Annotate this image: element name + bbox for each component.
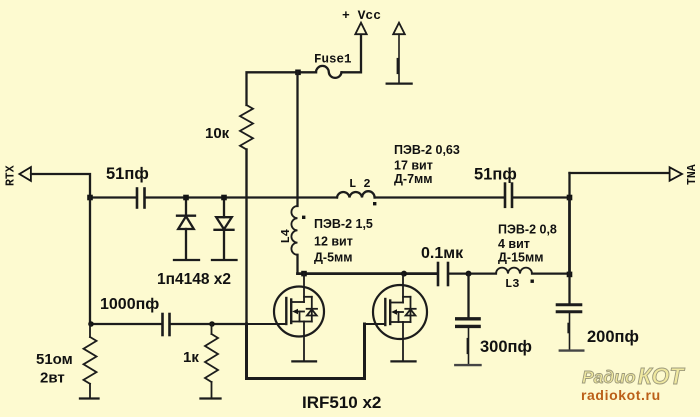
svg-text:200пф: 200пф xyxy=(587,328,639,346)
wire 1000pf left segment xyxy=(90,323,162,325)
inductor L3 xyxy=(496,268,532,274)
svg-text:0.1мк: 0.1мк xyxy=(421,245,464,262)
svg-text:Д-5мм: Д-5мм xyxy=(314,251,353,265)
diode VD1 1n4148 xyxy=(174,198,199,261)
ground 300pf xyxy=(455,364,480,366)
svg-text:ПЭВ-2 0,8: ПЭВ-2 0,8 xyxy=(498,223,557,237)
wire ANT riser xyxy=(568,173,570,198)
junction square diode VD2 xyxy=(221,195,227,201)
label PEV-2 0,63 block xyxy=(394,143,460,186)
svg-text:ПЭВ-2 1,5: ПЭВ-2 1,5 xyxy=(314,217,373,231)
wire input bus left segment xyxy=(90,196,136,198)
drain bus wire xyxy=(298,272,438,275)
wire RTX to corner xyxy=(31,174,90,198)
transistor Q1 IRF510 left xyxy=(247,274,325,361)
capacitor C1 51pf left xyxy=(137,189,145,208)
resistor R1 10k xyxy=(240,105,253,149)
svg-text:17 вит: 17 вит xyxy=(394,159,433,173)
diode VD2 1n4148 xyxy=(212,198,237,261)
wire bus L2 to cap2 xyxy=(375,196,504,198)
wire 0.1mk to L3 xyxy=(449,273,496,275)
svg-text:+ Vcc: + Vcc xyxy=(342,8,381,23)
wire ANT node down to output node xyxy=(568,198,571,274)
label PEV-2 1,5 block xyxy=(314,217,373,265)
logo Radio KOT watermark xyxy=(581,363,685,403)
svg-text:Д-15мм: Д-15мм xyxy=(498,251,543,265)
junction square ANT node xyxy=(567,195,573,201)
junction dot 300pf tap xyxy=(466,271,472,277)
svg-text:L3: L3 xyxy=(505,277,519,291)
junction square output node xyxy=(567,272,573,278)
junction dot left of 1000pf xyxy=(88,321,94,327)
node RTX arrow xyxy=(19,167,31,181)
svg-text:4 вит: 4 вит xyxy=(498,237,530,251)
wire cap2 to ANT node xyxy=(513,196,570,198)
wire 10k to gate riser xyxy=(245,150,247,325)
svg-text:51ом: 51ом xyxy=(36,351,73,368)
capacitor C2 51pf right xyxy=(505,184,512,207)
svg-text:300пф: 300пф xyxy=(480,338,532,356)
svg-text:Д-7мм: Д-7мм xyxy=(394,172,433,186)
wire bus cap to L2 xyxy=(146,196,337,198)
label PEV-2 0,8 block xyxy=(498,223,557,265)
capacitor C4 0.1mk xyxy=(438,263,448,285)
transistor Q2 IRF510 right xyxy=(365,274,428,361)
svg-text:10к: 10к xyxy=(205,125,230,142)
wire to ANT arrow xyxy=(570,172,670,174)
svg-text:ПЭВ-2 0,63: ПЭВ-2 0,63 xyxy=(394,143,460,157)
resistor R3 1k xyxy=(205,324,218,398)
wire 1000pf to gate riser xyxy=(171,323,247,325)
capacitor C3 1000pf xyxy=(163,314,170,335)
winding dot L2 xyxy=(373,202,376,205)
wire gate feedback U-shape xyxy=(247,324,365,379)
ground R3 xyxy=(201,397,221,399)
winding dot L4 xyxy=(302,216,305,219)
junction square top rail xyxy=(295,70,301,76)
svg-text:РадиоКОТ: РадиоКОТ xyxy=(582,363,685,389)
svg-text:L 2: L 2 xyxy=(349,177,371,191)
wire top rail from 10k to fuse xyxy=(247,72,317,105)
winding dot L3 xyxy=(531,280,534,283)
power +Vcc arrow xyxy=(355,23,366,35)
capacitor C6 200pf xyxy=(557,274,581,350)
wire Vcc drop to L4 xyxy=(296,72,298,206)
node A junction square at RTX corner xyxy=(87,195,93,201)
inductor L4 xyxy=(291,206,297,255)
resistor R2 51om xyxy=(84,324,97,398)
svg-text:TNA: TNA xyxy=(686,164,699,185)
svg-text:12 вит: 12 вит xyxy=(314,235,353,249)
ground Q1 source xyxy=(292,360,316,362)
svg-text:radiokot.ru: radiokot.ru xyxy=(581,387,661,403)
junction square diode VD1 xyxy=(183,195,189,201)
svg-text:RTX: RTX xyxy=(5,165,18,186)
svg-text:IRF510 x2: IRF510 x2 xyxy=(302,393,381,412)
svg-text:51пф: 51пф xyxy=(106,165,149,183)
ground R2 xyxy=(80,397,99,399)
wire 1000pf branch vertical xyxy=(89,198,91,325)
wire fuse to Vcc xyxy=(342,35,362,72)
wire L3 to output node xyxy=(532,273,570,275)
junction dot drain right xyxy=(401,271,407,277)
svg-text:1000пф: 1000пф xyxy=(100,296,159,313)
ground 200pf xyxy=(560,349,584,351)
svg-text:Fuse1: Fuse1 xyxy=(314,53,352,67)
wire L4 to drain bus xyxy=(296,255,298,274)
inductor L2 xyxy=(337,191,375,197)
svg-text:L4: L4 xyxy=(279,229,293,243)
svg-text:51пф: 51пф xyxy=(474,166,517,184)
node ANT arrow xyxy=(670,167,682,180)
junction square drain left xyxy=(301,271,307,277)
junction dot 1k top xyxy=(209,321,215,327)
fuse Fuse1 xyxy=(316,66,342,78)
power symbol right arrow-ground xyxy=(387,23,412,84)
svg-text:1п4148 x2: 1п4148 x2 xyxy=(157,271,231,288)
ground Q2 source xyxy=(392,360,416,362)
svg-text:2вт: 2вт xyxy=(40,370,65,387)
capacitor C5 300pf xyxy=(457,274,479,365)
svg-text:1к: 1к xyxy=(183,349,199,366)
